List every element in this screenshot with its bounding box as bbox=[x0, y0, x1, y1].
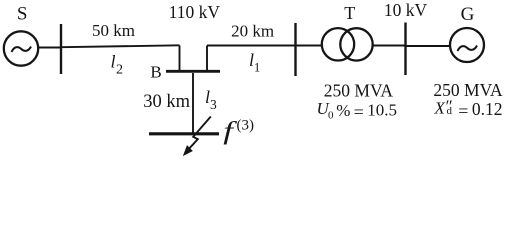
svg-text:=: = bbox=[458, 101, 468, 121]
busbar left bbox=[60, 24, 62, 74]
svg-text:%: % bbox=[336, 101, 350, 120]
svg-text:d: d bbox=[447, 105, 453, 117]
wire transformer to right bus bbox=[373, 45, 406, 47]
bus B bar bbox=[166, 70, 220, 73]
svg-text:S: S bbox=[17, 3, 28, 24]
svg-text:l3: l3 bbox=[205, 87, 217, 112]
wire S to left bus bbox=[38, 47, 61, 49]
svg-text:250 MVA: 250 MVA bbox=[324, 80, 394, 100]
wire bus to transformer bbox=[296, 45, 324, 47]
wire line l1 (20 km) bbox=[207, 45, 296, 47]
transformer T winding 2 bbox=[340, 28, 372, 60]
line l3 (30 km) bbox=[192, 73, 194, 133]
svg-text:l1: l1 bbox=[249, 50, 260, 75]
busbar middle bbox=[294, 23, 296, 76]
svg-text:10.5: 10.5 bbox=[367, 100, 397, 119]
fault lightning arrow bbox=[186, 117, 211, 152]
svg-text:f: f bbox=[223, 117, 237, 145]
wire bus to generator G bbox=[406, 45, 451, 47]
svg-text:X: X bbox=[434, 99, 446, 118]
wire line l2 (50 km) bbox=[61, 45, 180, 47]
wire riser from bus B bbox=[206, 46, 208, 72]
fault arrowhead bbox=[184, 146, 192, 155]
svg-text:(3): (3) bbox=[237, 118, 255, 134]
tilde inside S bbox=[12, 47, 32, 53]
svg-text:110 kV: 110 kV bbox=[169, 2, 221, 22]
fault location bar bbox=[149, 132, 219, 135]
svg-text:T: T bbox=[344, 3, 355, 23]
svg-text:=: = bbox=[354, 102, 364, 122]
svg-text:10 kV: 10 kV bbox=[384, 0, 428, 20]
generator S bbox=[4, 31, 38, 65]
svg-text:50 km: 50 km bbox=[92, 21, 135, 40]
busbar right bbox=[404, 23, 406, 76]
wire drop to bus B bbox=[179, 45, 181, 71]
svg-text:B: B bbox=[150, 62, 161, 81]
svg-text:l2: l2 bbox=[111, 52, 124, 78]
generator G bbox=[450, 28, 484, 62]
tilde inside G bbox=[458, 46, 478, 52]
svg-text:20 km: 20 km bbox=[231, 21, 274, 40]
svg-text:30 km: 30 km bbox=[143, 92, 190, 112]
svg-text:0.12: 0.12 bbox=[472, 99, 503, 119]
svg-text:0: 0 bbox=[328, 110, 334, 122]
svg-text:250 MVA: 250 MVA bbox=[433, 80, 503, 100]
transformer T winding 1 bbox=[322, 28, 354, 60]
svg-text:G: G bbox=[461, 4, 475, 25]
